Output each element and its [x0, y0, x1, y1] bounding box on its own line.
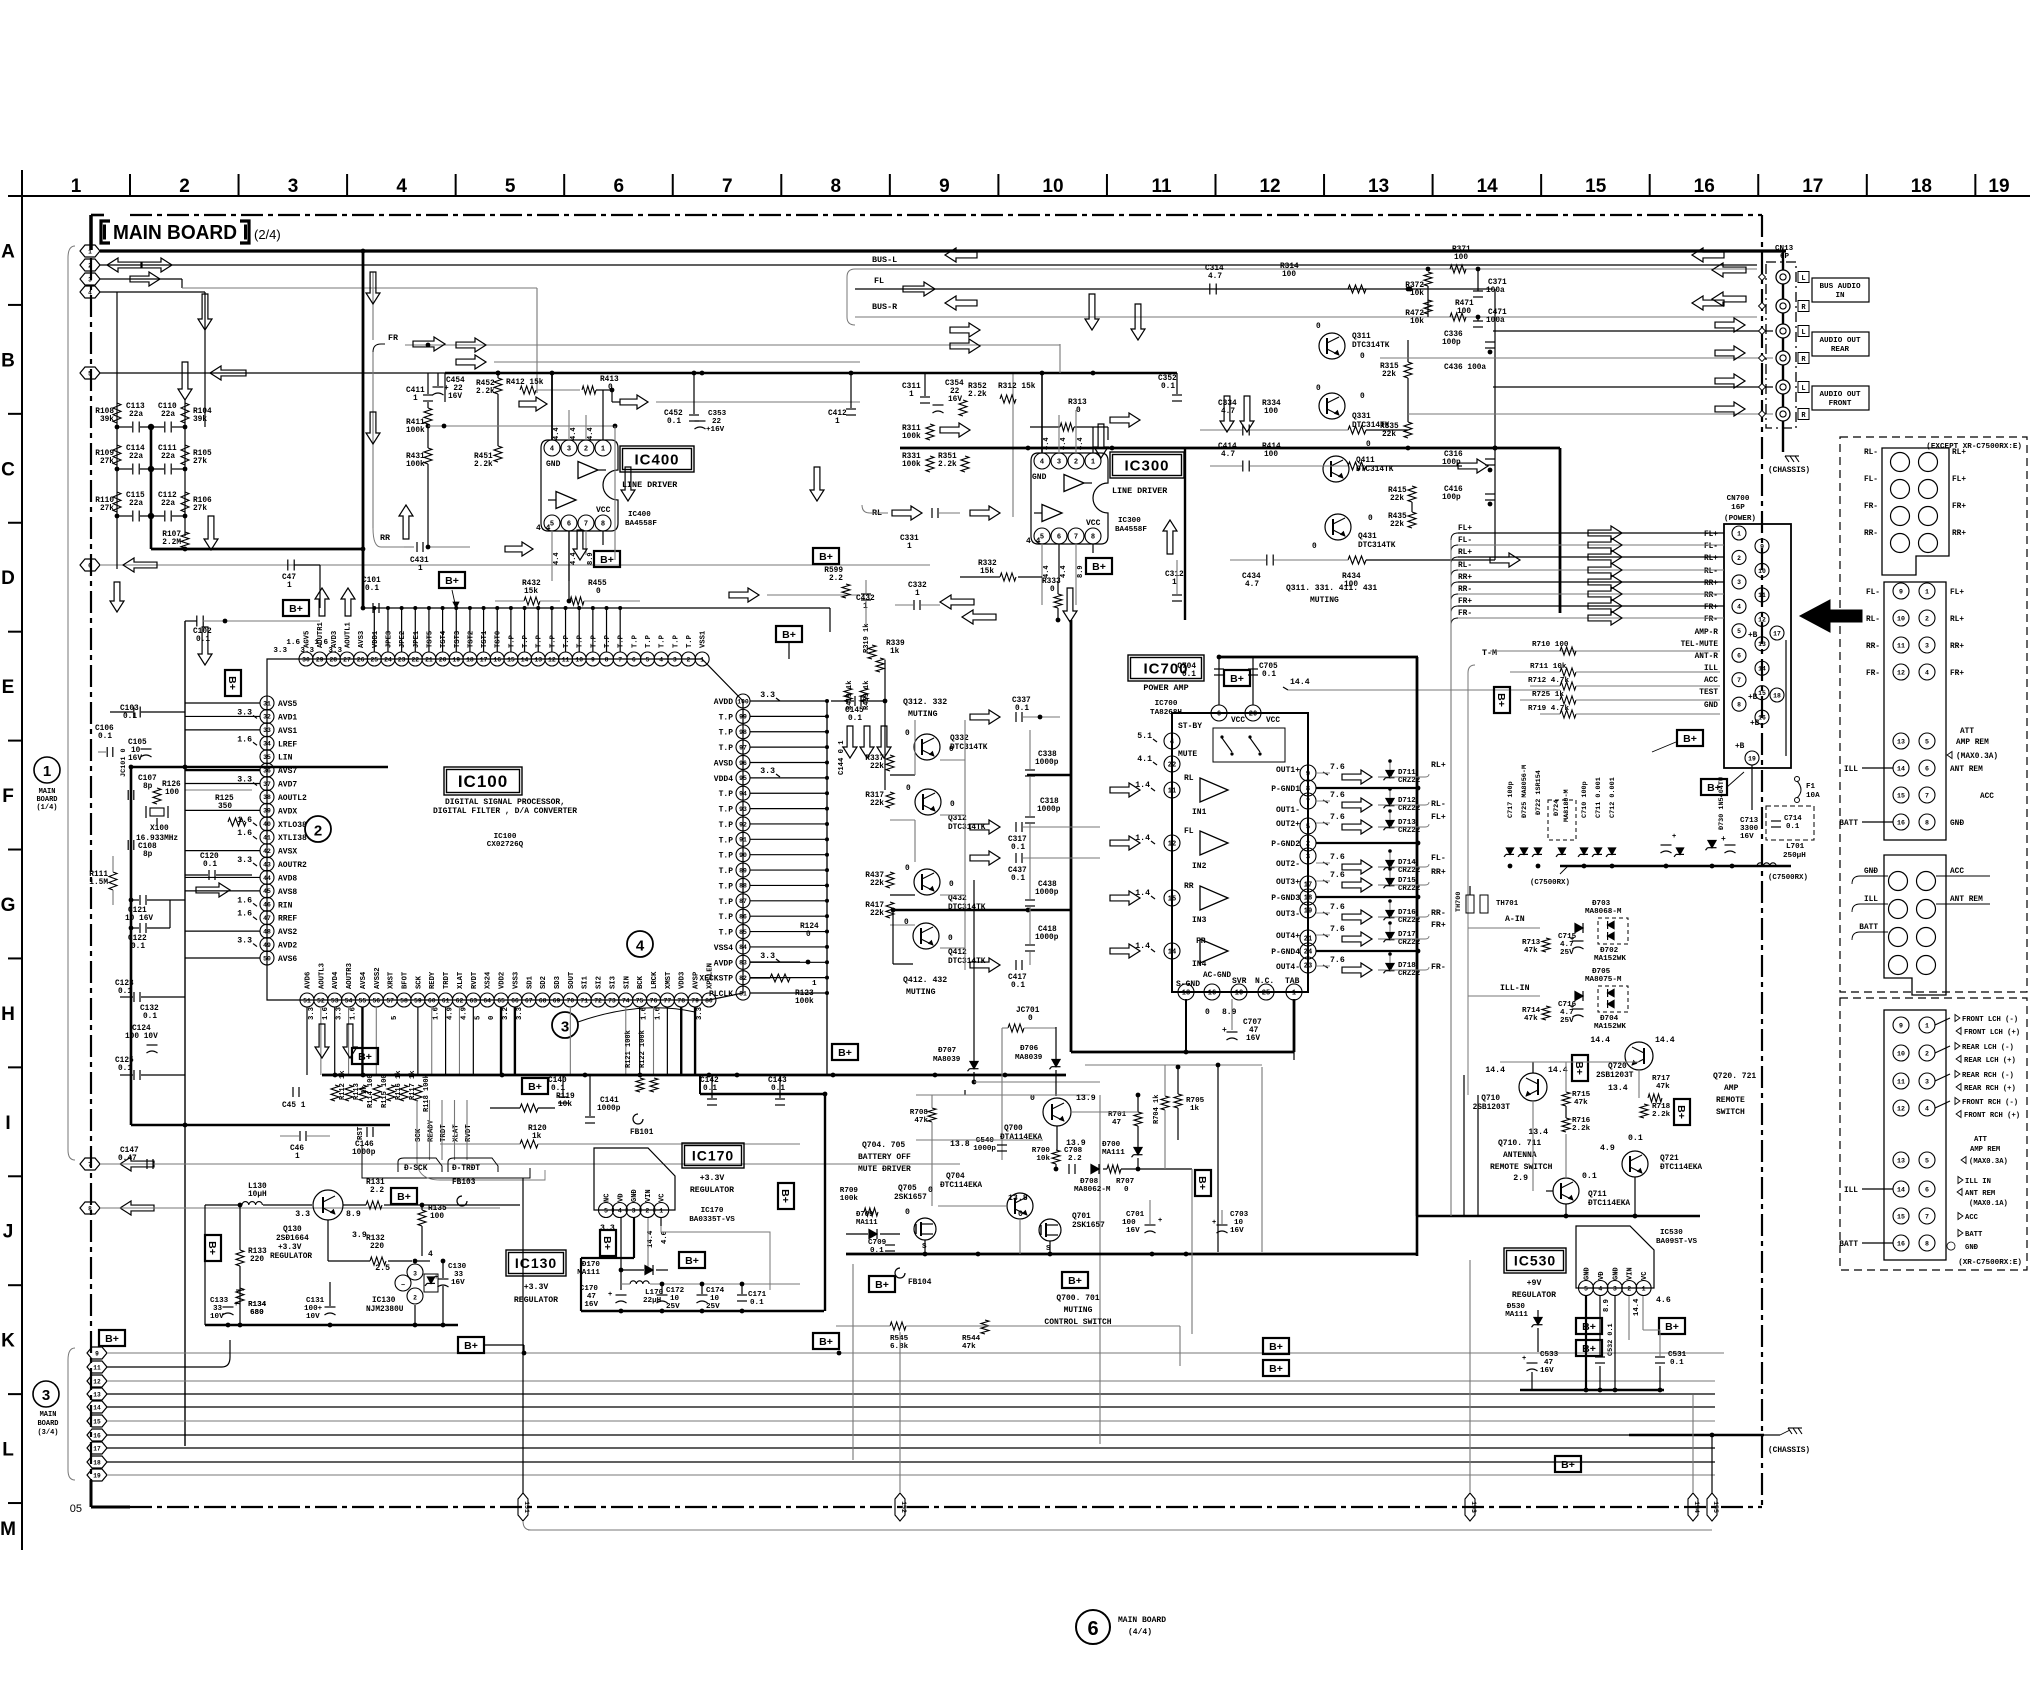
svg-text:VSS1: VSS1 — [700, 630, 708, 648]
svg-text:B+: B+ — [601, 1236, 613, 1250]
jack CN13 L y331 — [1776, 324, 1790, 338]
svg-text:T.P: T.P — [577, 634, 585, 648]
socket row — [1889, 956, 1908, 975]
svg-text:1k: 1k — [890, 648, 900, 656]
svg-text:B+: B+ — [875, 1279, 889, 1291]
wire xtal to pins — [130, 795, 132, 845]
svg-text:R417: R417 — [865, 902, 884, 910]
pin 85 IC100 right — [736, 925, 750, 939]
svg-text:AVD8: AVD8 — [278, 874, 297, 883]
wire net row 557 — [1458, 556, 1724, 558]
svg-text:8: 8 — [1925, 819, 1929, 826]
svg-text:3.3: 3.3 — [328, 647, 342, 655]
wire x1218 x1262 down — [1217, 1065, 1219, 1252]
svg-text:8.9: 8.9 — [346, 1210, 361, 1219]
op-amp 3 IC700 — [1200, 886, 1228, 910]
svg-text:9: 9 — [1899, 1022, 1903, 1029]
svg-text:3.3: 3.3 — [300, 647, 314, 655]
svg-text:+3.3V: +3.3V — [700, 1174, 725, 1183]
svg-text:23: 23 — [1304, 963, 1312, 971]
socket row GNÐ ACC — [1889, 872, 1908, 891]
svg-text:3.3: 3.3 — [237, 776, 252, 785]
pin 4 IC300 — [1034, 453, 1050, 469]
svg-text:11: 11 — [562, 656, 570, 663]
wire net bundle vertical — [1450, 540, 1452, 1095]
svg-text:31: 31 — [263, 700, 271, 707]
arrow feed — [1588, 526, 1622, 540]
arrow feed — [1588, 599, 1622, 613]
pin 95 IC100 right — [736, 771, 750, 785]
svg-text:22k: 22k — [1390, 521, 1404, 529]
svg-text:1: 1 — [909, 391, 914, 399]
wire <5> long — [100, 372, 1013, 374]
FET Q705 2SK1657 — [914, 1218, 936, 1240]
svg-text:1.5M: 1.5M — [89, 879, 108, 887]
svg-text:8.9: 8.9 — [1222, 1008, 1237, 1017]
arrow on <4> branch down — [198, 294, 212, 330]
svg-text:Ð-TRÐT: Ð-TRÐT — [452, 1165, 480, 1173]
svg-text:9: 9 — [95, 1350, 99, 1357]
svg-text:GNÐ: GNÐ — [631, 1189, 639, 1202]
svg-text:B+: B+ — [1561, 1459, 1575, 1471]
svg-text:13.9: 13.9 — [1076, 1094, 1096, 1103]
svg-text:69: 69 — [553, 997, 561, 1004]
node page-connector <19> — [87, 1469, 107, 1481]
svg-text:0: 0 — [949, 881, 954, 889]
svg-text:(3/4): (3/4) — [37, 1429, 58, 1437]
svg-text:8: 8 — [1925, 1240, 1929, 1247]
wire stubs — [1852, 484, 1858, 489]
svg-text:R337: R337 — [865, 755, 884, 763]
svg-text:REMOTE SWITCH: REMOTE SWITCH — [1490, 1163, 1553, 1172]
wire pin up — [401, 608, 403, 652]
pin 42 IC100 left — [260, 844, 274, 858]
svg-text:R315: R315 — [1380, 363, 1399, 371]
svg-text:14: 14 — [1897, 765, 1905, 772]
wire IC530 pins down — [1585, 1296, 1587, 1390]
svg-text:1: 1 — [907, 543, 912, 551]
svg-text:1000p: 1000p — [973, 1145, 996, 1153]
svg-text:JC701: JC701 — [1016, 1007, 1040, 1015]
svg-text:AMP-R: AMP-R — [1695, 629, 1719, 637]
svg-text:Q710. 711: Q710. 711 — [1498, 1139, 1541, 1148]
svg-text:C352: C352 — [1158, 375, 1177, 383]
B+ box near pins — [283, 600, 309, 616]
arrow RR in — [1110, 891, 1140, 905]
svg-text:REAR LCH (-): REAR LCH (-) — [1962, 1044, 2014, 1052]
arrow left pair below IC300 — [940, 595, 974, 609]
svg-text:4.6: 4.6 — [1656, 1296, 1671, 1305]
svg-text:REMOTE: REMOTE — [1716, 1096, 1745, 1105]
transistor Q700 DTA114EKA — [1043, 1098, 1071, 1126]
svg-text:C130: C130 — [448, 1263, 467, 1271]
svg-text:AUDIO OUT: AUDIO OUT — [1819, 337, 1860, 345]
svg-text:19: 19 — [93, 1472, 101, 1479]
node border crossing diamond — [1759, 328, 1766, 335]
wire heavy y767 — [131, 766, 388, 769]
svg-text:B+: B+ — [1707, 782, 1721, 794]
wire x893 down thin — [892, 910, 894, 964]
svg-text:R313: R313 — [1068, 399, 1087, 407]
svg-text:RR-: RR- — [1866, 643, 1880, 651]
wire thick IC700 top — [1219, 656, 1418, 659]
svg-text:0: 0 — [1316, 323, 1321, 331]
svg-text:C532 0.1: C532 0.1 — [1607, 1323, 1615, 1356]
svg-text:R352: R352 — [968, 383, 987, 391]
svg-text:C143: C143 — [768, 1077, 787, 1085]
svg-text:47k: 47k — [914, 1117, 928, 1125]
svg-text:J: J — [3, 1222, 14, 1243]
svg-text:NC: NC — [604, 1194, 612, 1202]
wire thick y1216 extend right — [1417, 1215, 1700, 1218]
pin 46 IC100 left — [260, 897, 274, 911]
svg-text:0.1: 0.1 — [1786, 823, 1800, 831]
svg-text:11: 11 — [1758, 592, 1766, 599]
svg-text:B+: B+ — [105, 1333, 119, 1345]
wire bus <19> — [107, 1474, 1715, 1476]
wire muting verticals — [914, 720, 916, 775]
svg-text:22: 22 — [1168, 762, 1176, 770]
svg-text:27k: 27k — [193, 505, 207, 513]
pin 61 IC100 bottom — [439, 993, 453, 1007]
pin 18 IC100 top — [463, 652, 477, 666]
svg-text:2.2: 2.2 — [1068, 1155, 1082, 1163]
svg-text:12: 12 — [548, 656, 556, 663]
arrow FL in — [1110, 836, 1140, 850]
socket RL-/RL+ — [1891, 453, 1910, 472]
arrow down x373 b — [366, 412, 380, 444]
svg-text:(MAX0.3A): (MAX0.3A) — [1969, 1158, 2008, 1166]
op-amp B IC400 — [556, 492, 576, 509]
pin 59 IC100 bottom — [411, 993, 425, 1007]
wire heavy x131 vertical — [130, 767, 133, 1125]
pin 12 IC100 top — [545, 652, 559, 666]
svg-text:+: + — [1222, 1026, 1227, 1035]
svg-text:Q720. 721: Q720. 721 — [1713, 1072, 1756, 1081]
svg-text:MAIN BOARD: MAIN BOARD — [1118, 1616, 1166, 1625]
svg-text:R719 4.7k: R719 4.7k — [1528, 705, 1569, 713]
pin 1 IC400 — [595, 440, 611, 456]
svg-text:BOARD: BOARD — [36, 796, 57, 804]
node page-connector <16> — [87, 1429, 107, 1441]
pin 8 IC300 — [1085, 528, 1101, 544]
svg-text:AVS4: AVS4 — [360, 971, 368, 989]
svg-text:T.P: T.P — [719, 929, 734, 938]
svg-text:FB104: FB104 — [908, 1279, 932, 1287]
svg-text:OUT4+: OUT4+ — [1276, 932, 1300, 941]
svg-text:13.8: 13.8 — [1008, 1194, 1028, 1203]
svg-text:M: M — [0, 1519, 16, 1540]
diode symbols row — [1506, 848, 1513, 854]
svg-text:7.6: 7.6 — [1330, 791, 1345, 800]
svg-text:C471: C471 — [1488, 309, 1507, 317]
svg-text:FRONT RCH (+): FRONT RCH (+) — [1964, 1112, 2020, 1120]
svg-text:B+: B+ — [464, 1340, 478, 1352]
svg-text:3: 3 — [42, 1387, 50, 1404]
arrow right y466 — [1458, 459, 1488, 473]
wire IC300 top rail — [905, 372, 1177, 374]
wire pin down — [666, 1007, 668, 1075]
svg-text:3: 3 — [1925, 642, 1929, 649]
svg-text:BA09ST-VS: BA09ST-VS — [1656, 1238, 1697, 1246]
svg-text:FR-: FR- — [1458, 610, 1472, 618]
pin 8 CN700 — [1732, 697, 1746, 711]
svg-text:FB101: FB101 — [630, 1129, 654, 1137]
arrow below pins 54 — [343, 1024, 357, 1058]
svg-text:38: 38 — [263, 794, 271, 801]
pin 4 IC170 — [612, 1203, 627, 1218]
svg-text:R371: R371 — [1452, 246, 1471, 254]
svg-text:1: 1 — [1642, 1285, 1646, 1292]
svg-text:16: 16 — [493, 656, 501, 663]
svg-text:47: 47 — [1249, 1027, 1259, 1035]
arrow feed — [1588, 611, 1622, 625]
svg-text:C411: C411 — [406, 387, 425, 395]
svg-text:1: 1 — [835, 418, 840, 426]
svg-text:99: 99 — [739, 714, 747, 721]
svg-text:D713: D713 — [1398, 819, 1416, 827]
svg-text:0.1: 0.1 — [1015, 705, 1029, 713]
svg-text:1: 1 — [1925, 588, 1929, 595]
svg-text:4.7: 4.7 — [1208, 273, 1222, 281]
arrow feed — [1588, 563, 1622, 577]
svg-text:C172: C172 — [666, 1287, 685, 1295]
svg-text:B+: B+ — [782, 629, 796, 641]
svg-text:12: 12 — [1758, 617, 1766, 624]
svg-text:B+: B+ — [528, 1081, 542, 1093]
svg-text:MA8039: MA8039 — [933, 1056, 961, 1064]
socket (15)(7) — [1893, 787, 1909, 803]
svg-text:2: 2 — [687, 656, 691, 663]
arrow out D714 — [1342, 860, 1372, 874]
arrow into IC400 top — [519, 397, 547, 411]
svg-text:GND: GND — [1704, 702, 1718, 710]
svg-text:Ð722 1SR154: Ð722 1SR154 — [1535, 770, 1543, 815]
svg-text:MUTING: MUTING — [908, 710, 938, 719]
socket RR-/RR+ — [1891, 534, 1910, 553]
svg-text:0: 0 — [928, 1186, 933, 1195]
svg-text:RL-: RL- — [1704, 568, 1718, 576]
svg-text:C123: C123 — [115, 980, 134, 988]
B+ box IC700 — [1224, 670, 1250, 686]
svg-text:6: 6 — [567, 521, 571, 529]
svg-text:R708: R708 — [910, 1109, 929, 1117]
svg-text:14: 14 — [93, 1404, 101, 1411]
svg-text:B+: B+ — [819, 551, 833, 563]
svg-text:100: 100 — [1454, 254, 1468, 262]
svg-text:T.P: T.P — [631, 634, 639, 648]
svg-text:77: 77 — [664, 997, 672, 1004]
svg-text:Q312. 332: Q312. 332 — [903, 698, 947, 707]
svg-text:15: 15 — [1168, 896, 1176, 904]
svg-text:C317: C317 — [1008, 836, 1027, 844]
pin 2 IC170 — [640, 1203, 655, 1218]
wire q71x/72x links — [1532, 1101, 1534, 1191]
svg-text:FL+: FL+ — [1458, 525, 1472, 533]
pin 4 CN700 — [1732, 599, 1746, 613]
svg-text:4.4: 4.4 — [553, 552, 561, 565]
transistor Q130 2SD1664 — [313, 1190, 343, 1220]
pin 96 IC100 right — [736, 755, 750, 769]
node page-connector <2> — [80, 259, 100, 271]
svg-text:DIGITAL SIGNAL PROCESSOR,: DIGITAL SIGNAL PROCESSOR, — [445, 798, 565, 807]
svg-text:IN2: IN2 — [1192, 862, 1207, 871]
svg-text:86: 86 — [739, 913, 747, 920]
svg-text:CRZ22: CRZ22 — [1398, 867, 1420, 875]
arrows down x1227 x1247 — [1220, 396, 1234, 432]
svg-text:R472: R472 — [1405, 310, 1424, 318]
svg-text:93: 93 — [739, 806, 747, 813]
wire pin right — [750, 977, 827, 979]
svg-text:Q412: Q412 — [948, 949, 967, 957]
pin 97 IC100 right — [736, 740, 750, 754]
svg-text:RL-: RL- — [1866, 616, 1880, 624]
svg-text:FL-: FL- — [1704, 543, 1718, 551]
svg-text:14: 14 — [1477, 176, 1499, 197]
svg-text:0: 0 — [806, 931, 811, 939]
svg-text:BATT: BATT — [1859, 924, 1878, 932]
svg-text:R125: R125 — [215, 795, 234, 803]
svg-text:7.6: 7.6 — [1330, 853, 1345, 862]
svg-text:C45 1: C45 1 — [282, 1102, 306, 1110]
svg-text:DTC314TK: DTC314TK — [1356, 466, 1394, 474]
ic IC100 label box — [444, 767, 522, 795]
pin 43 IC100 left — [260, 857, 274, 871]
border frame tick — [8, 740, 22, 742]
svg-text:G: G — [1, 895, 16, 916]
svg-text:9: 9 — [591, 656, 595, 663]
diode D702 MA152WK — [1598, 918, 1628, 944]
svg-text:RR-: RR- — [1458, 586, 1472, 594]
svg-text:R704 1k: R704 1k — [1153, 1095, 1161, 1124]
svg-text:7.6: 7.6 — [1330, 763, 1345, 772]
svg-text:POWER AMP: POWER AMP — [1143, 683, 1188, 693]
svg-text:0: 0 — [905, 865, 910, 873]
svg-text:14: 14 — [1897, 1186, 1905, 1193]
svg-text:R117 1k: R117 1k — [409, 1071, 417, 1100]
arrow FR in — [1110, 944, 1140, 958]
svg-text:SI1: SI1 — [582, 975, 590, 989]
pin 35 IC100 left — [260, 750, 274, 764]
node border crossing diamond — [1759, 411, 1766, 418]
svg-text:78: 78 — [677, 997, 685, 1004]
svg-text:SIN: SIN — [623, 976, 631, 989]
svg-text:12: 12 — [1168, 841, 1176, 849]
svg-text:11: 11 — [93, 1364, 101, 1371]
svg-text:C147: C147 — [120, 1147, 139, 1155]
svg-text:49: 49 — [263, 942, 271, 949]
arrow down x373 a — [366, 272, 380, 304]
svg-text:0.1: 0.1 — [131, 943, 145, 951]
label REAR RCH (-) (+) — [1955, 1071, 1960, 1078]
wire thick x1294 TAB — [1293, 999, 1296, 1052]
svg-text:7.6: 7.6 — [1330, 871, 1345, 880]
svg-text:OUT1+: OUT1+ — [1276, 766, 1300, 775]
svg-text:4.9: 4.9 — [447, 1007, 455, 1020]
svg-text:39k: 39k — [193, 416, 207, 424]
svg-text:C131: C131 — [306, 1297, 325, 1305]
section ref 3 pointer — [552, 1012, 578, 1038]
svg-text:0.1: 0.1 — [1011, 875, 1025, 883]
svg-text:3.3: 3.3 — [295, 1210, 310, 1219]
wire pin down — [375, 1007, 377, 1075]
wire pin right — [750, 823, 827, 825]
svg-text:B+: B+ — [1582, 1343, 1596, 1355]
svg-text:T.P: T.P — [604, 634, 612, 648]
border frame tick — [1974, 174, 1976, 196]
wire row — [117, 468, 132, 470]
svg-text:20: 20 — [1249, 711, 1257, 719]
pin 78 IC100 bottom — [674, 993, 688, 1007]
svg-text:1.6: 1.6 — [237, 896, 252, 905]
transistor Q412 DTC314TK — [913, 923, 939, 949]
svg-text:B+: B+ — [838, 1047, 852, 1059]
svg-text:T.P: T.P — [522, 634, 530, 648]
svg-text:K: K — [1, 1331, 15, 1352]
svg-text:CRZ22: CRZ22 — [1398, 917, 1420, 925]
jack CN13 L y277 — [1776, 270, 1790, 284]
svg-text:RVDT: RVDT — [471, 971, 479, 989]
svg-text:19: 19 — [1748, 755, 1756, 762]
svg-text:76: 76 — [650, 997, 658, 1004]
svg-text:B+: B+ — [819, 1336, 833, 1348]
svg-text:79: 79 — [691, 997, 699, 1004]
pin 8 IC700 right — [1300, 780, 1316, 796]
svg-text:1.6: 1.6 — [350, 1007, 358, 1020]
svg-text:R131: R131 — [366, 1179, 385, 1187]
svg-text:100 10V: 100 10V — [125, 1033, 158, 1041]
svg-text:15: 15 — [1897, 792, 1905, 799]
pin 5 IC300 — [1034, 528, 1050, 544]
node page-connector <11> — [87, 1361, 107, 1373]
svg-text:C416: C416 — [1444, 486, 1463, 494]
svg-text:ÐTC114EKA: ÐTC114EKA — [1588, 1200, 1630, 1208]
pin 44 IC100 left — [260, 870, 274, 884]
svg-text:64: 64 — [483, 997, 491, 1004]
B+ rot R718 — [1674, 1099, 1690, 1125]
svg-text:RR-: RR- — [1864, 530, 1878, 538]
capacitor C417 0.1 — [1015, 960, 1017, 970]
svg-text:Ð170: Ð170 — [582, 1261, 601, 1269]
svg-text:0.1: 0.1 — [123, 713, 137, 721]
label box AUDIO OUT FRONT — [1812, 386, 1869, 410]
svg-text:AVD2: AVD2 — [278, 942, 297, 951]
svg-text:22a: 22a — [161, 411, 175, 419]
svg-text:T.P: T.P — [645, 634, 653, 648]
svg-text:71: 71 — [580, 997, 588, 1004]
svg-text:SVR: SVR — [1232, 977, 1247, 986]
arrow col2 down — [178, 362, 192, 400]
svg-text:C336: C336 — [1444, 331, 1463, 339]
svg-text:R108: R108 — [95, 408, 114, 416]
svg-text:R122 100k: R122 100k — [639, 1030, 647, 1068]
svg-text:C708: C708 — [1064, 1147, 1083, 1155]
svg-text:11: 11 — [1168, 788, 1176, 796]
connector table D outline — [1884, 1010, 1946, 1260]
svg-text:8: 8 — [831, 176, 842, 197]
svg-text:250µH: 250µH — [1783, 852, 1806, 860]
svg-text:SD2: SD2 — [540, 976, 548, 989]
svg-text:B+: B+ — [358, 1051, 372, 1063]
svg-text:C337: C337 — [1012, 697, 1031, 705]
svg-text:12: 12 — [1897, 669, 1905, 676]
arrow out D713 — [1342, 820, 1372, 834]
label FRONT LCH (-) (+) — [1955, 1015, 1960, 1022]
arrow in busL — [1712, 263, 1746, 277]
svg-text:155: 155 — [1712, 1501, 1719, 1513]
arrow out D716 — [1342, 910, 1372, 924]
svg-text:5: 5 — [391, 1016, 399, 1020]
